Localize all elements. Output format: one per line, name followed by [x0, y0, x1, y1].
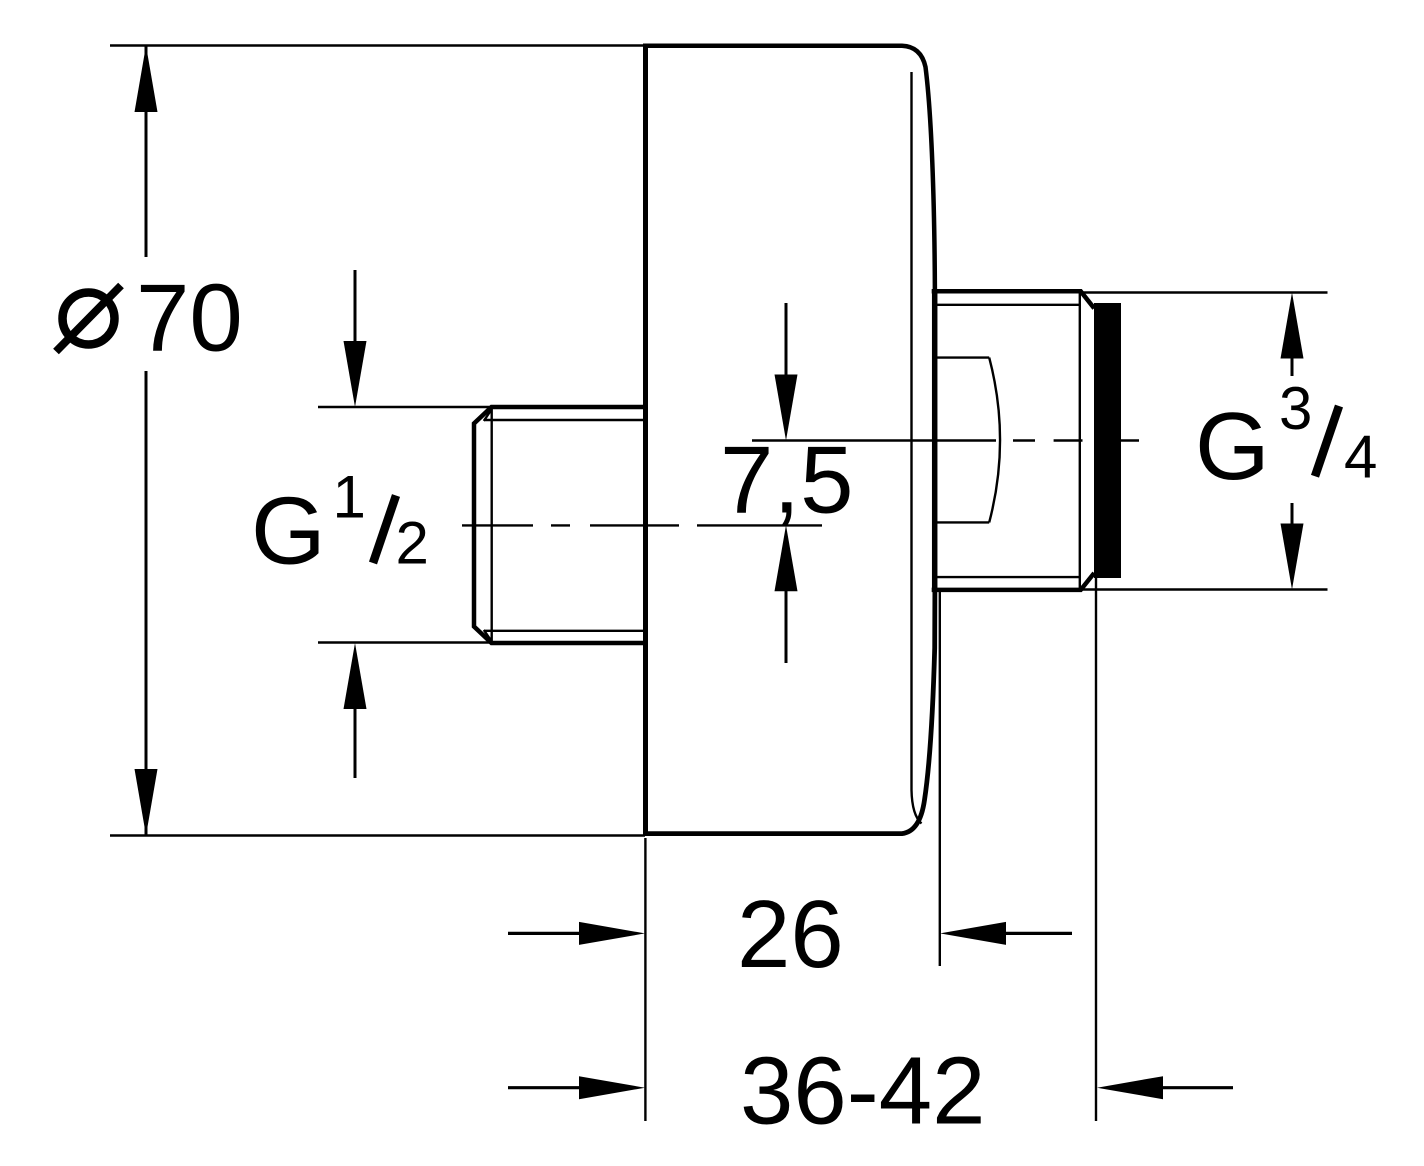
dim G3/4 extension line top [1079, 291, 1328, 293]
cylinder G3/4 bottom edge and chamfer [932, 573, 1094, 590]
svg-text:1: 1 [333, 464, 366, 531]
dim Ø70 extension line bottom [110, 834, 645, 836]
inner bore outline [935, 358, 1000, 523]
svg-text:2: 2 [396, 510, 429, 577]
body front face line [912, 72, 922, 824]
dim 36-42 arrow right [508, 1086, 580, 1089]
label Ø symbol [63, 293, 115, 345]
thread G1/2 outline [474, 407, 645, 643]
dim G1/2 extension line top [318, 406, 491, 408]
cylinder G3/4 root line bottom [934, 576, 1081, 578]
cylinder G3/4 end face line [1079, 293, 1081, 589]
dim 36-42 extension line right [1095, 578, 1097, 1121]
dim Ø70 arrow up [135, 46, 158, 113]
cylinder G3/4 root line top [934, 304, 1081, 306]
dim 26 arrow left [1006, 932, 1072, 935]
dim G1/2 extension line bottom [318, 641, 491, 643]
svg-text:3: 3 [1279, 375, 1312, 442]
centerline G1/2 axis [462, 524, 822, 526]
dim G3/4 arrow down [1291, 503, 1294, 524]
body left edge (wall face) [643, 44, 648, 837]
svg-text:70: 70 [136, 265, 243, 372]
svg-text:7,5: 7,5 [720, 427, 853, 534]
dim 36-42 arrow left [1163, 1086, 1233, 1089]
dim 26 extension line left [644, 838, 646, 1121]
dim 26 extension line right [939, 592, 941, 966]
dim 26 arrow right [508, 932, 580, 935]
dim G3/4 extension line bottom [1082, 588, 1328, 590]
body/cylinder joint edge [932, 290, 938, 592]
dim 7,5 arrow down [785, 303, 788, 378]
body lower silhouette and bottom edge [643, 590, 935, 834]
centerline cylinder axis [752, 439, 1139, 441]
dim G3/4 arrow up [1291, 358, 1294, 376]
svg-text:G: G [251, 478, 326, 585]
thread G1/2 root line top [484, 410, 645, 421]
thread G1/2 root line bottom [484, 630, 645, 641]
dim 7,5 arrow up [785, 591, 788, 663]
thread G1/2 runout line [491, 409, 493, 641]
body top edge and upper silhouette [643, 46, 935, 291]
gasket seal [1094, 303, 1121, 578]
cylinder G3/4 top edge and chamfer [932, 291, 1094, 308]
dim Ø70 extension line top [110, 44, 645, 46]
svg-text:36-42: 36-42 [740, 1038, 986, 1145]
dim G1/2 arrow up [354, 709, 357, 778]
svg-text:G: G [1195, 393, 1270, 500]
svg-text:4: 4 [1344, 424, 1377, 491]
dim G1/2 arrow down [354, 270, 357, 345]
dim Ø70 line [145, 46, 148, 836]
dim Ø70 arrow down [135, 769, 158, 836]
svg-text:26: 26 [737, 881, 844, 988]
